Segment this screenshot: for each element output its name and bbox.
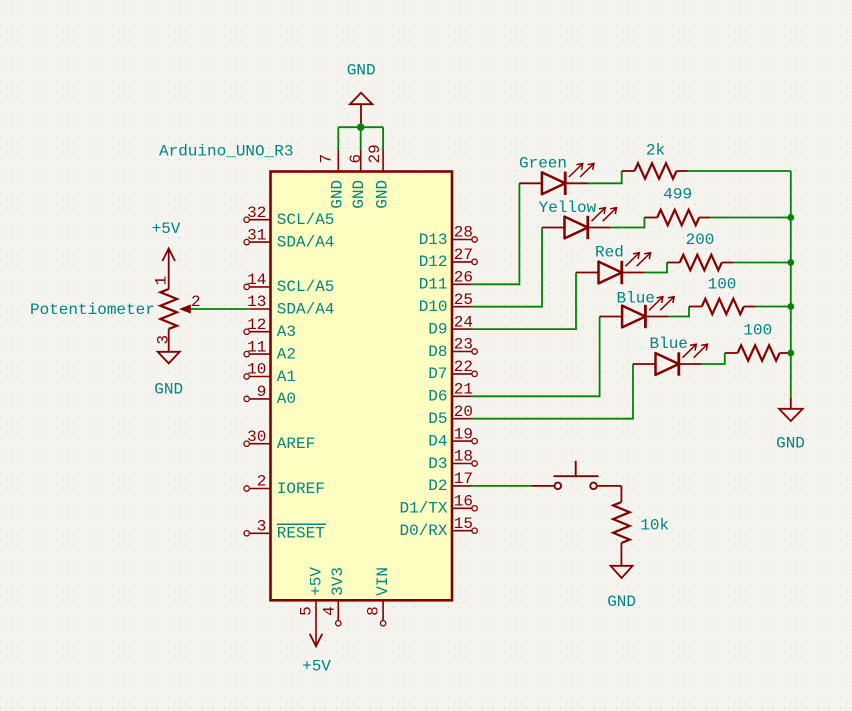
- svg-text:13: 13: [247, 293, 266, 311]
- svg-text:3: 3: [257, 518, 267, 536]
- svg-text:Yellow: Yellow: [539, 199, 597, 217]
- pin 24 D9 (right): [428, 313, 473, 338]
- svg-text:Blue: Blue: [617, 290, 655, 308]
- junction resistor 100 / bus: [787, 303, 794, 310]
- svg-text:D10: D10: [419, 298, 448, 316]
- svg-text:D12: D12: [419, 253, 448, 271]
- svg-text:D7: D7: [428, 365, 447, 383]
- svg-text:RESET: RESET: [277, 525, 325, 543]
- wire LED 1 to resistor 2k: [588, 171, 622, 183]
- svg-text:IOREF: IOREF: [277, 480, 325, 498]
- svg-text:D5: D5: [428, 410, 447, 428]
- svg-text:D2: D2: [428, 477, 447, 495]
- pin 19 D4 (right): [428, 425, 477, 450]
- pin 10 A1 (left): [244, 361, 296, 386]
- pin 21 D6 (right): [428, 381, 473, 406]
- svg-text:+5V: +5V: [307, 567, 325, 596]
- resistor 499: [644, 185, 710, 225]
- pin 4 3V3 (bottom): [320, 567, 347, 626]
- wire LED 4 to resistor 100: [668, 307, 689, 317]
- pin 29 GND (top): [366, 144, 391, 208]
- LED Blue 4: [600, 297, 675, 329]
- svg-text:A2: A2: [277, 345, 296, 363]
- svg-text:11: 11: [247, 338, 266, 356]
- svg-text:10k: 10k: [640, 517, 669, 535]
- op-amp U1 Arduino_UNO_R3 body: [271, 172, 453, 601]
- wire resistor 2k to GND bus: [688, 170, 791, 172]
- wiper arrow: [179, 304, 191, 313]
- svg-text:SDA/A4: SDA/A4: [277, 300, 335, 318]
- pin 18 D3 (right): [428, 448, 477, 473]
- svg-text:A1: A1: [277, 368, 296, 386]
- wire IC pin to LED Blue 4: [472, 317, 600, 397]
- wire GND bus vertical right: [790, 171, 792, 398]
- junction top GND: [357, 123, 365, 131]
- resistor 2k: [622, 141, 688, 178]
- pin 28 D13 (right): [419, 224, 478, 249]
- svg-text:D8: D8: [428, 343, 447, 361]
- power symbol +5V at potentiometer: [152, 220, 181, 289]
- svg-text:12: 12: [247, 316, 266, 334]
- pin 8 VIN (bottom): [364, 567, 392, 626]
- pin 15 D0/RX (right): [399, 515, 477, 540]
- svg-text:GND: GND: [350, 180, 368, 209]
- pin 20 D5 (right): [428, 403, 473, 428]
- svg-text:GND: GND: [607, 593, 636, 611]
- svg-text:SCL/A5: SCL/A5: [277, 278, 335, 296]
- svg-text:200: 200: [686, 231, 715, 249]
- svg-text:9: 9: [257, 383, 267, 401]
- junction resistor 200 / bus: [787, 259, 794, 266]
- pin 31 SDA/A4 (left): [244, 226, 334, 251]
- LED Yellow 2: [542, 208, 617, 240]
- svg-text:2: 2: [257, 473, 267, 491]
- svg-text:Potentiometer: Potentiometer: [30, 301, 155, 319]
- svg-text:14: 14: [247, 271, 266, 289]
- pin 16 D1/TX (right): [399, 493, 477, 518]
- ground symbol potentiometer: [154, 329, 183, 399]
- svg-text:D3: D3: [428, 455, 447, 473]
- pin 27 D12 (right): [419, 246, 478, 271]
- svg-text:SDA/A4: SDA/A4: [277, 233, 335, 251]
- pin 11 A2 (left): [244, 338, 296, 363]
- power symbol +5V at pin 5: [310, 634, 323, 647]
- svg-text:GND: GND: [347, 62, 376, 80]
- pin 9 A0 (left): [244, 383, 296, 408]
- pin 3 RESET (left): [244, 518, 326, 543]
- wire potentiometer wiper to pin 13: [191, 308, 250, 310]
- switch SW1 push button: [531, 461, 621, 489]
- LED Blue 5: [633, 344, 708, 376]
- svg-text:1: 1: [152, 276, 170, 286]
- pin 26 D11 (right): [419, 269, 473, 294]
- svg-text:10: 10: [247, 361, 266, 379]
- potentiometer RV1: [30, 276, 201, 345]
- pin 25 D10 (right): [419, 291, 473, 316]
- svg-text:8: 8: [364, 606, 382, 616]
- svg-text:32: 32: [247, 204, 266, 222]
- svg-text:Blue: Blue: [650, 335, 688, 353]
- pin 30 AREF (left): [244, 428, 315, 453]
- svg-text:+5V: +5V: [302, 658, 331, 676]
- ground symbol button: [607, 566, 636, 611]
- svg-text:100: 100: [708, 276, 737, 294]
- wire resistor 100 to GND bus: [755, 306, 791, 308]
- wire LED 2 to resistor 499: [611, 218, 645, 228]
- svg-text:SCL/A5: SCL/A5: [277, 211, 335, 229]
- svg-text:GND: GND: [329, 180, 347, 209]
- svg-text:25: 25: [454, 291, 473, 309]
- junction resistor 100 / bus: [787, 350, 794, 357]
- wire resistor 200 to GND bus: [733, 262, 791, 264]
- svg-text:D1/TX: D1/TX: [399, 500, 447, 518]
- svg-text:31: 31: [247, 226, 266, 244]
- svg-text:100: 100: [743, 322, 772, 340]
- svg-text:17: 17: [454, 470, 473, 488]
- svg-text:A3: A3: [277, 323, 296, 341]
- resistor 200: [667, 231, 733, 270]
- svg-text:29: 29: [366, 144, 384, 163]
- ground symbol top (GND above IC): [347, 62, 376, 128]
- svg-text:Red: Red: [595, 244, 624, 262]
- pin 5 +5V (bottom): [298, 567, 326, 644]
- svg-text:28: 28: [454, 224, 473, 242]
- LED Green 1: [519, 164, 594, 196]
- svg-text:A0: A0: [277, 390, 296, 408]
- wire pin 17 D2 to switch: [472, 485, 532, 487]
- pin 2 IOREF (left): [244, 473, 325, 498]
- svg-text:D6: D6: [428, 388, 447, 406]
- wire resistor 499 to GND bus: [710, 217, 790, 219]
- pin 12 A3 (left): [244, 316, 296, 341]
- wire top GND bus to pins 7,6,29: [338, 127, 383, 150]
- svg-text:Green: Green: [519, 155, 567, 173]
- svg-text:499: 499: [663, 185, 692, 203]
- svg-text:Arduino_UNO_R3: Arduino_UNO_R3: [159, 143, 293, 161]
- pin 17 D2 (right): [428, 470, 473, 495]
- svg-text:15: 15: [454, 515, 473, 533]
- svg-text:D11: D11: [419, 276, 448, 294]
- svg-text:3: 3: [155, 335, 173, 345]
- svg-text:6: 6: [347, 154, 365, 164]
- svg-text:3V3: 3V3: [329, 567, 347, 596]
- wire switch to resistor 10k: [620, 486, 622, 502]
- svg-text:D0/RX: D0/RX: [399, 522, 447, 540]
- svg-text:30: 30: [247, 428, 266, 446]
- pin 13 SDA/A4 (left): [247, 293, 334, 318]
- pin 14 SCL/A5 (left): [244, 271, 334, 296]
- resistor 100: [689, 276, 755, 315]
- resistor 10k: [613, 502, 669, 566]
- svg-text:21: 21: [454, 381, 473, 399]
- svg-text:GND: GND: [776, 435, 805, 453]
- svg-text:D13: D13: [419, 231, 448, 249]
- svg-text:5: 5: [298, 606, 316, 616]
- pin 22 D7 (right): [428, 358, 477, 383]
- wire IC pin to LED Red 3: [472, 273, 576, 330]
- pin 6 GND (top): [347, 150, 368, 209]
- svg-text:+5V: +5V: [152, 220, 181, 238]
- svg-text:4: 4: [320, 606, 338, 616]
- wire IC pin to LED Green 1: [472, 183, 520, 284]
- svg-text:23: 23: [454, 336, 473, 354]
- svg-text:22: 22: [454, 358, 473, 376]
- resistor 100: [725, 322, 791, 361]
- wire IC pin to LED Yellow 2: [472, 228, 542, 307]
- svg-text:GND: GND: [154, 381, 183, 399]
- junction resistor 499 / bus: [787, 214, 794, 221]
- svg-text:AREF: AREF: [277, 435, 315, 453]
- wire LED 5 to resistor 100: [702, 353, 725, 364]
- svg-text:VIN: VIN: [374, 567, 392, 596]
- svg-text:26: 26: [454, 269, 473, 287]
- svg-text:2k: 2k: [646, 141, 665, 159]
- svg-text:18: 18: [454, 448, 473, 466]
- svg-text:7: 7: [318, 154, 336, 164]
- svg-text:20: 20: [454, 403, 473, 421]
- svg-text:D9: D9: [428, 320, 447, 338]
- svg-text:24: 24: [454, 313, 473, 331]
- svg-text:27: 27: [454, 246, 473, 264]
- LED Red 3: [576, 253, 651, 285]
- wire IC pin to LED Blue 5: [472, 364, 633, 419]
- wire LED 3 to resistor 200: [645, 263, 667, 273]
- ground symbol right bus: [776, 398, 805, 453]
- pin 32 SCL/A5 (left): [244, 204, 334, 229]
- pin 7 GND (top): [318, 150, 347, 209]
- svg-text:D4: D4: [428, 432, 447, 450]
- pin 23 D8 (right): [428, 336, 477, 361]
- svg-text:GND: GND: [373, 180, 391, 209]
- svg-text:16: 16: [454, 493, 473, 511]
- svg-text:19: 19: [454, 425, 473, 443]
